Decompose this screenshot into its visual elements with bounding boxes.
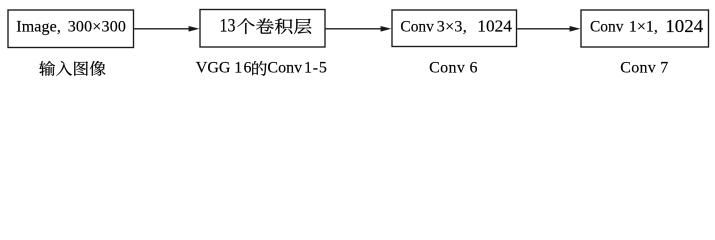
svg-text:Conv 6: Conv 6 bbox=[429, 60, 478, 77]
svg-text:16: 16 bbox=[234, 60, 252, 77]
svg-text:1-5: 1-5 bbox=[304, 60, 328, 77]
svg-text:Conv: Conv bbox=[267, 60, 302, 77]
svg-text:VGG: VGG bbox=[196, 60, 231, 77]
svg-text:Conv 7: Conv 7 bbox=[620, 60, 668, 77]
svg-text:Conv: Conv bbox=[590, 19, 624, 36]
svg-text:13: 13 bbox=[220, 14, 236, 36]
svg-text:Conv: Conv bbox=[400, 19, 434, 36]
svg-text:300×300: 300×300 bbox=[68, 19, 126, 36]
svg-text:1024: 1024 bbox=[477, 17, 512, 36]
svg-text:Image,: Image, bbox=[16, 19, 61, 36]
svg-text:1024: 1024 bbox=[665, 16, 703, 36]
svg-text:3×3,: 3×3, bbox=[437, 19, 467, 36]
svg-text:1×1,: 1×1, bbox=[629, 19, 658, 36]
